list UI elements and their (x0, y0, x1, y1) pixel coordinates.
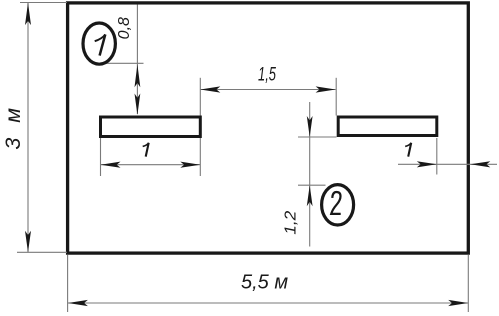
extension line slot2 left, above (335, 78, 337, 116)
arrowhead pointing left at right wall (470, 161, 490, 167)
dimension line 1 (right slot to wall) (398, 163, 497, 165)
extension line slot1 left, below (100, 138, 102, 176)
arrowhead down, 3 м bottom (25, 231, 31, 253)
arrowhead right, 5,5 м (448, 300, 468, 306)
position circle 2 (322, 185, 354, 225)
svg-text:0,8: 0,8 (116, 17, 133, 39)
extension line slot2 bottom level (298, 136, 337, 138)
extension line slot2 right, below (436, 138, 438, 175)
svg-text:3 м: 3 м (1, 104, 25, 150)
extension line slot1 right, above (199, 78, 201, 116)
svg-text:1,5: 1,5 (258, 65, 276, 86)
slot 2 (right opening) (338, 117, 437, 136)
arrowhead pointing right at slot2 edge (417, 161, 437, 167)
arrowhead up, 0,8 (135, 64, 141, 87)
arrowhead left, 5,5 м (68, 300, 88, 306)
dimension line 5,5 м (bottom horizontal) (68, 302, 468, 304)
svg-text:1,2: 1,2 (283, 211, 300, 235)
dimension line 3 м (left vertical) (27, 3, 29, 253)
extension line below-right wall (467, 255, 469, 312)
arrowhead up, 1,2 bottom (307, 185, 313, 206)
extension line top-left (20, 2, 67, 4)
label 1 in circle (95, 34, 106, 55)
position circle 1 (83, 23, 115, 64)
svg-text:5,5 м: 5,5 м (241, 272, 288, 294)
label 1 (right slot dimension) (405, 143, 411, 157)
arrowhead down, 1,2 top (307, 116, 313, 137)
label 1 (slot 1 width) (143, 143, 149, 157)
leader line from circle 1 (100, 62, 144, 64)
dimension line 1,2 (vertical at slot 2) (309, 102, 311, 247)
arrowhead up, 3 м top (25, 3, 31, 26)
dimension line 1,5 (between slots) (200, 89, 335, 91)
leader line from circle 2 (298, 184, 326, 186)
arrowhead right, slot1 width (180, 162, 200, 168)
arrowhead left, 1,5 (200, 86, 220, 92)
room outline (5,5 x 3 m wall rectangle) (68, 3, 469, 253)
extension line below-left wall (67, 255, 69, 312)
extension line slot1 right, below (199, 138, 201, 176)
arrowhead right, 1,5 (316, 86, 336, 92)
dimension line 1 (below slot 1) (101, 164, 201, 166)
arrowhead down, 0,8 (135, 94, 141, 116)
extension line bottom-left (17, 251, 67, 253)
label 2 in circle (331, 192, 341, 214)
arrowhead left, slot1 width (101, 162, 121, 168)
slot 1 (left opening) (101, 117, 201, 137)
dimension line 0,8 (vertical at slot 1) (136, 5, 138, 115)
